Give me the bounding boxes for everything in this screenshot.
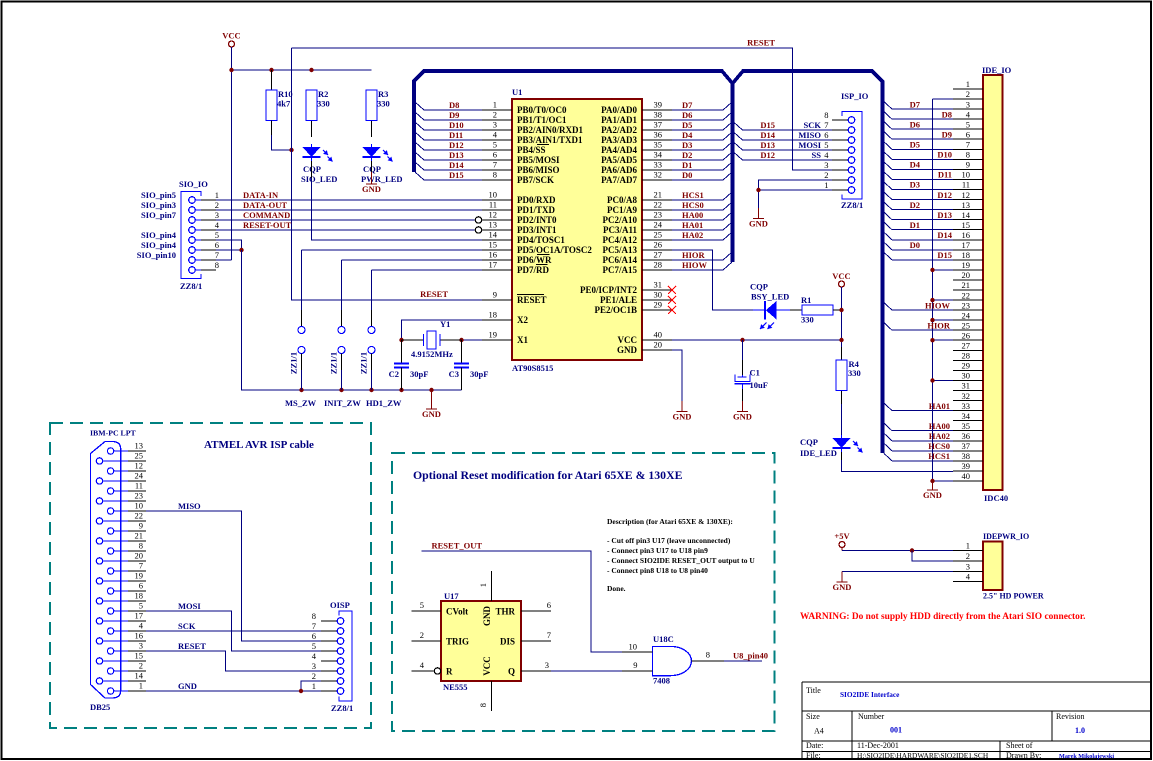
- wire INIT_ZW to U1: [342, 259, 483, 261]
- gate U18C 7408 AND: [622, 646, 724, 675]
- svg-text:1: 1: [493, 100, 497, 110]
- bus entries on right bus (IDE connector signals): [884, 102, 892, 461]
- svg-text:D5: D5: [910, 140, 920, 150]
- svg-text:Optional Reset modification fo: Optional Reset modification for Atari 65…: [413, 468, 683, 482]
- svg-text:D6: D6: [682, 110, 692, 120]
- wire RESET (DB25 pin3 to OISP pin3): [146, 651, 321, 671]
- svg-text:D0: D0: [682, 170, 692, 180]
- junction crystal left: [399, 338, 403, 342]
- svg-text:24: 24: [654, 220, 663, 230]
- data bus (thick navy): left bus, top run, mid bus, right bus: [414, 71, 883, 453]
- svg-text:U18C: U18C: [653, 634, 674, 644]
- svg-text:3: 3: [139, 641, 143, 651]
- svg-text:2: 2: [966, 551, 970, 561]
- svg-text:13: 13: [489, 220, 498, 230]
- svg-text:2.5" HD POWER: 2.5" HD POWER: [983, 592, 1044, 601]
- svg-text:PD3/INT1: PD3/INT1: [517, 225, 557, 235]
- resistor R3: [366, 90, 377, 137]
- svg-text:29: 29: [654, 300, 663, 310]
- svg-text:OISP: OISP: [330, 600, 350, 610]
- jumper ZZ1/1 MS_ZW: [298, 250, 305, 390]
- junction crystal right: [459, 338, 463, 342]
- svg-text:GND: GND: [178, 681, 197, 691]
- svg-text:SIO_pin4: SIO_pin4: [141, 230, 177, 240]
- labels SCK MISO MOSI SS at ISP: [798, 120, 821, 160]
- svg-text:330: 330: [801, 315, 814, 325]
- svg-text:PWR_LED: PWR_LED: [361, 174, 403, 184]
- svg-text:8: 8: [478, 703, 488, 707]
- wire IDE_LED to IDE pin 39: [842, 452, 954, 471]
- bus entries on mid bus right side (D15-D12 to ISP): [734, 122, 743, 160]
- labels D8-D15 at IDE: [937, 109, 952, 260]
- svg-text:D14: D14: [449, 160, 464, 170]
- svg-text:VCC: VCC: [618, 335, 638, 345]
- svg-text:30pF: 30pF: [470, 369, 488, 379]
- svg-text:3: 3: [215, 210, 219, 220]
- svg-text:SIO_pin5: SIO_pin5: [141, 190, 176, 200]
- resistor R10 (RESET pullup): [266, 70, 277, 135]
- svg-text:Done.: Done.: [607, 584, 626, 593]
- svg-text:6: 6: [547, 600, 551, 610]
- svg-text:9: 9: [966, 160, 970, 170]
- wire DATA-OUT (SIO pin2 to U1 pin11): [216, 209, 482, 211]
- svg-text:PD4/TOSC1: PD4/TOSC1: [517, 235, 565, 245]
- svg-text:9: 9: [139, 521, 143, 531]
- wire GND (DB25 pin1 to OISP pin1): [146, 690, 321, 692]
- wire SIO ground down to ground rail: [242, 250, 462, 390]
- junction SIO ground: [239, 248, 243, 252]
- svg-text:2: 2: [139, 661, 143, 671]
- svg-text:6: 6: [139, 581, 143, 591]
- svg-text:D12: D12: [937, 190, 952, 200]
- svg-text:Number: Number: [858, 712, 885, 721]
- svg-text:34: 34: [962, 411, 971, 421]
- wire U1 pin20 GND down: [672, 350, 682, 401]
- wire SIO pin7 to VCC: [216, 259, 232, 261]
- svg-text:D3: D3: [682, 140, 692, 150]
- wire X1 (U1 pin19 to crystal): [462, 339, 483, 341]
- svg-text:D0: D0: [910, 240, 920, 250]
- svg-text:D13: D13: [449, 150, 464, 160]
- svg-text:DATA-IN: DATA-IN: [243, 190, 279, 200]
- wire HD1_ZW to U1: [372, 269, 483, 271]
- svg-text:MISO: MISO: [178, 501, 201, 511]
- svg-text:PA0/AD0: PA0/AD0: [601, 105, 637, 115]
- jumper ZZ1/1 HD1_ZW: [368, 270, 375, 390]
- svg-text:SIO_LED: SIO_LED: [301, 174, 337, 184]
- svg-text:8: 8: [215, 260, 219, 270]
- svg-text:1: 1: [478, 583, 488, 587]
- svg-text:X1: X1: [517, 335, 528, 345]
- IDE data wires D8-D15 (even pins 4-18): [892, 119, 953, 260]
- DB25 pin numbers: [135, 441, 144, 691]
- svg-text:D9: D9: [449, 110, 459, 120]
- svg-text:31: 31: [654, 280, 663, 290]
- svg-text:9: 9: [493, 290, 497, 300]
- wire RESET_OUT to U18C pin 10: [422, 551, 623, 652]
- svg-text:8: 8: [966, 150, 970, 160]
- svg-text:PB0/T0/OC0: PB0/T0/OC0: [517, 105, 567, 115]
- svg-text:SCK: SCK: [178, 621, 196, 631]
- U1 right pin numbers: [654, 100, 663, 350]
- svg-text:35: 35: [654, 140, 663, 150]
- svg-text:3: 3: [966, 562, 970, 572]
- wire DATA-IN (SIO pin1 to U1 pin10): [216, 199, 482, 201]
- svg-text:D1: D1: [682, 160, 692, 170]
- svg-text:MS_ZW: MS_ZW: [285, 398, 317, 408]
- svg-text:8: 8: [493, 170, 497, 180]
- svg-text:7: 7: [493, 160, 497, 170]
- svg-text:HD1_ZW: HD1_ZW: [366, 398, 402, 408]
- svg-text:34: 34: [654, 150, 663, 160]
- svg-text:HIOR: HIOR: [682, 250, 706, 260]
- svg-text:38: 38: [962, 451, 971, 461]
- svg-text:8: 8: [139, 541, 143, 551]
- wire SIO pins 5+6 ground join: [216, 240, 242, 250]
- svg-text:PC2/A10: PC2/A10: [603, 215, 638, 225]
- bus entries on left bus (D8-D15 to U1 PB pins): [415, 102, 424, 180]
- svg-text:12: 12: [962, 190, 971, 200]
- pin numbers OISP 8-1: [312, 611, 317, 691]
- U1 right pin names: [580, 105, 638, 355]
- wire IDEPWR pin2: [912, 551, 953, 562]
- svg-text:27: 27: [654, 250, 663, 260]
- svg-text:330: 330: [317, 99, 330, 109]
- svg-text:14: 14: [962, 210, 971, 220]
- svg-text:PC7/A15: PC7/A15: [603, 265, 638, 275]
- svg-text:19: 19: [135, 571, 144, 581]
- U17 pin stubs and bubble: [412, 571, 552, 711]
- svg-text:8: 8: [312, 611, 316, 621]
- svg-text:HCS1: HCS1: [928, 451, 950, 461]
- svg-text:23: 23: [654, 210, 663, 220]
- svg-text:11: 11: [135, 481, 143, 491]
- svg-text:2: 2: [493, 110, 497, 120]
- svg-text:PB4/SS: PB4/SS: [517, 145, 546, 155]
- svg-text:HA00: HA00: [929, 421, 950, 431]
- U1 left pin names: [517, 105, 592, 345]
- svg-text:3: 3: [312, 661, 316, 671]
- svg-text:PD5/OC1A/TOSC2: PD5/OC1A/TOSC2: [517, 245, 592, 255]
- svg-text:22: 22: [654, 200, 663, 210]
- svg-text:VCC: VCC: [222, 31, 240, 41]
- svg-text:PA5/AD5: PA5/AD5: [601, 155, 637, 165]
- DB25 pin circles and stubs: [96, 448, 146, 694]
- svg-text:1: 1: [966, 541, 970, 551]
- LED BSY_LED (horizontal): [753, 301, 790, 329]
- svg-text:DB25: DB25: [90, 702, 110, 712]
- wire RESET-OUT (SIO pin4 to U1 pin13): [216, 229, 475, 231]
- IDEPWR pin stubs: [953, 551, 983, 582]
- svg-text:SIO_IO: SIO_IO: [179, 179, 208, 189]
- svg-text:R10: R10: [278, 89, 293, 99]
- resistor R1: [790, 305, 842, 315]
- svg-text:330: 330: [377, 99, 390, 109]
- svg-text:R2: R2: [318, 89, 328, 99]
- labels D7-D0 at IDE: [910, 99, 921, 250]
- svg-text:PC6/A14: PC6/A14: [603, 255, 638, 265]
- svg-text:- Cut off pin3 U17 (leave unco: - Cut off pin3 U17 (leave unconnected): [607, 536, 731, 545]
- wire R4 to IDE_LED: [841, 404, 843, 435]
- svg-text:HA02: HA02: [682, 230, 703, 240]
- svg-text:32: 32: [962, 391, 971, 401]
- svg-text:1: 1: [139, 681, 143, 691]
- svg-text:A4: A4: [814, 727, 824, 736]
- LED SIO_LED: [303, 144, 333, 162]
- svg-text:VCC: VCC: [482, 656, 492, 676]
- svg-text:D4: D4: [910, 160, 921, 170]
- svg-text:ZZ1/1: ZZ1/1: [359, 352, 369, 374]
- labels D8-D15 at U1 left: [449, 100, 464, 180]
- svg-text:21: 21: [654, 190, 663, 200]
- ic U1 AT90S8515 body: [512, 99, 642, 360]
- dashed frame Optional Reset modification: [392, 453, 775, 731]
- svg-text:PB3/AIN1/TXD1: PB3/AIN1/TXD1: [517, 135, 583, 145]
- svg-text:D8: D8: [942, 109, 952, 119]
- junction C1 top: [740, 338, 744, 342]
- resistor R2: [306, 90, 317, 137]
- svg-text:22: 22: [962, 290, 971, 300]
- svg-text:SIO2IDE Interface: SIO2IDE Interface: [840, 690, 900, 699]
- svg-text:U1: U1: [512, 87, 522, 97]
- pin numbers ISP_IO 8-1: [824, 110, 829, 190]
- svg-text:4k7: 4k7: [277, 99, 291, 109]
- svg-text:25: 25: [654, 230, 663, 240]
- svg-text:SIO_pin4: SIO_pin4: [141, 240, 177, 250]
- svg-text:ZZ8/1: ZZ8/1: [180, 281, 202, 291]
- junction R1/VCC: [839, 308, 843, 312]
- svg-text:6: 6: [215, 240, 219, 250]
- junction RESET/R10: [289, 148, 293, 152]
- svg-text:7: 7: [966, 140, 970, 150]
- svg-text:CVolt: CVolt: [446, 607, 468, 617]
- svg-text:16: 16: [135, 631, 144, 641]
- svg-text:17: 17: [489, 260, 498, 270]
- svg-text:PB2/AIN0/RXD1: PB2/AIN0/RXD1: [517, 125, 584, 135]
- svg-text:2: 2: [420, 630, 424, 640]
- svg-text:SIO_pin7: SIO_pin7: [141, 210, 177, 220]
- svg-text:D4: D4: [682, 130, 693, 140]
- svg-text:HCS0: HCS0: [682, 200, 704, 210]
- svg-text:10: 10: [489, 190, 498, 200]
- svg-text:7: 7: [312, 621, 316, 631]
- LED PWR_LED: [363, 144, 393, 162]
- connector OISP ZZ8/1: [321, 611, 352, 701]
- svg-text:GND: GND: [362, 184, 381, 194]
- capacitor C1 (polarized): [735, 340, 751, 401]
- svg-text:PB5/MOSI: PB5/MOSI: [517, 155, 560, 165]
- svg-text:40: 40: [654, 330, 663, 340]
- svg-text:IBM-PC LPT: IBM-PC LPT: [90, 429, 136, 438]
- svg-text:35: 35: [962, 421, 971, 431]
- connector IDE_IO IDC40 body: [983, 75, 1003, 490]
- svg-text:19: 19: [962, 260, 971, 270]
- svg-text:MOSI: MOSI: [178, 601, 201, 611]
- U1 inverting bubbles pins 12,13: [475, 217, 481, 223]
- wires PC port to mid bus: [672, 200, 723, 270]
- svg-text:COMMAND: COMMAND: [243, 210, 290, 220]
- svg-text:Revision: Revision: [1056, 712, 1084, 721]
- svg-text:IDC40: IDC40: [984, 493, 1008, 503]
- svg-text:GND: GND: [733, 412, 752, 422]
- svg-text:5: 5: [215, 230, 219, 240]
- svg-text:31: 31: [962, 381, 971, 391]
- title block texts: [806, 686, 1114, 760]
- svg-text:20: 20: [654, 340, 663, 350]
- junction cable ground: [299, 689, 303, 693]
- svg-text:ZZ8/1: ZZ8/1: [841, 200, 863, 210]
- svg-text:39: 39: [654, 100, 663, 110]
- svg-text:GND: GND: [617, 345, 638, 355]
- svg-text:C1: C1: [750, 368, 760, 378]
- svg-text:GND: GND: [749, 219, 768, 229]
- svg-text:D13: D13: [937, 210, 952, 220]
- svg-text:36: 36: [962, 431, 971, 441]
- wire U1 pin40 VCC: [672, 339, 842, 341]
- svg-text:D6: D6: [910, 119, 920, 129]
- svg-text:28: 28: [962, 351, 971, 361]
- junction VCC/pin40: [839, 338, 843, 342]
- IDE ground rail (pins 2,19,22,24,26,30,40): [933, 99, 954, 481]
- junction VCC rail: [229, 68, 233, 72]
- wire U1 pin26 (PC5) to BSY_LED: [672, 250, 753, 310]
- svg-text:D11: D11: [938, 170, 952, 180]
- svg-text:PA3/AD3: PA3/AD3: [601, 135, 637, 145]
- wire VCC rail horizontal: [232, 69, 372, 71]
- svg-text:IDEPWR_IO: IDEPWR_IO: [983, 532, 1029, 541]
- svg-text:D13: D13: [760, 140, 775, 150]
- svg-text:D10: D10: [937, 150, 952, 160]
- svg-text:WARNING: Do not supply HDD dir: WARNING: Do not supply HDD directly from…: [800, 612, 1086, 622]
- svg-text:- Connect SIO2IDE RESET_OUT ou: - Connect SIO2IDE RESET_OUT output to U: [607, 556, 755, 565]
- svg-text:D8: D8: [449, 100, 459, 110]
- U1 right pin stubs: [642, 110, 672, 350]
- svg-text:- Connect pin8 U18 to U8 pin40: - Connect pin8 U18 to U8 pin40: [607, 566, 708, 575]
- svg-text:7408: 7408: [653, 676, 670, 686]
- svg-text:1: 1: [966, 79, 970, 89]
- svg-text:D11: D11: [449, 130, 463, 140]
- svg-text:ZZ1/1: ZZ1/1: [289, 352, 299, 374]
- svg-text:18: 18: [489, 310, 498, 320]
- svg-text:1: 1: [312, 681, 316, 691]
- svg-text:C2: C2: [389, 369, 399, 379]
- svg-text:6: 6: [824, 130, 828, 140]
- svg-text:11-Dec-2001: 11-Dec-2001: [857, 741, 899, 750]
- title block frame: [802, 682, 1151, 759]
- svg-text:HA02: HA02: [929, 431, 950, 441]
- svg-text:D7: D7: [682, 100, 693, 110]
- svg-text:11: 11: [962, 180, 970, 190]
- wire +5V to IDEPWR pin1: [842, 548, 953, 551]
- wire U17 Q to U18C pin 9: [551, 670, 622, 672]
- svg-text:PC1/A9: PC1/A9: [607, 205, 637, 215]
- svg-text:23: 23: [135, 491, 144, 501]
- svg-text:32: 32: [654, 170, 663, 180]
- svg-text:D15: D15: [937, 250, 952, 260]
- wire U18C output: [724, 660, 762, 662]
- ground at IDEPWR: [833, 572, 852, 593]
- connector SIO_IO ZZ8/1: [181, 192, 216, 279]
- svg-text:R1: R1: [801, 295, 811, 305]
- svg-text:D2: D2: [910, 200, 920, 210]
- svg-text:AT90S8515: AT90S8515: [512, 363, 553, 373]
- svg-text:R3: R3: [378, 89, 388, 99]
- svg-text:12: 12: [489, 210, 498, 220]
- wire RESET net: from R10 junction up across sheet to ISP pin3: [292, 48, 833, 170]
- ground under ISP: [749, 208, 768, 229]
- svg-text:DIS: DIS: [500, 637, 515, 647]
- U18C pin numbers: [629, 642, 711, 671]
- svg-text:13: 13: [135, 441, 144, 451]
- svg-text:3: 3: [824, 160, 828, 170]
- svg-text:+5V: +5V: [834, 531, 850, 541]
- wires PA0-PA7 to mid bus: [672, 110, 723, 180]
- svg-text:BSY_LED: BSY_LED: [751, 292, 789, 302]
- svg-text:37: 37: [962, 441, 971, 451]
- overlines for PB4/SS, PD6/WR, PD7/RD, RESET: [517, 145, 550, 295]
- wire COMMAND (SIO pin3 to U1 pin12): [216, 219, 475, 221]
- ground under IDE pin 40: [923, 481, 942, 500]
- svg-text:40: 40: [962, 471, 971, 481]
- svg-text:3: 3: [966, 99, 970, 109]
- wires D8-D15 from left bus to U1: [424, 110, 482, 180]
- svg-text:PC4/A12: PC4/A12: [603, 235, 638, 245]
- svg-text:PD7/RD: PD7/RD: [517, 265, 549, 275]
- svg-text:Marek Mikolajewski: Marek Mikolajewski: [1059, 753, 1114, 760]
- svg-text:Description (for Atari 65XE &: Description (for Atari 65XE & 130XE):: [607, 517, 733, 526]
- U1 left pin stubs: [482, 110, 512, 340]
- svg-text:PE0/ICP/INT2: PE0/ICP/INT2: [580, 285, 638, 295]
- svg-text:001: 001: [890, 726, 902, 735]
- svg-text:10uF: 10uF: [750, 380, 768, 390]
- svg-text:2: 2: [215, 200, 219, 210]
- svg-text:SIO_pin10: SIO_pin10: [137, 250, 176, 260]
- svg-text:PD6/WR: PD6/WR: [517, 255, 552, 265]
- svg-text:RESET: RESET: [178, 641, 206, 651]
- svg-text:25: 25: [962, 320, 971, 330]
- svg-text:ZZ1/1: ZZ1/1: [329, 352, 339, 374]
- svg-text:36: 36: [654, 130, 663, 140]
- svg-text:1: 1: [215, 190, 219, 200]
- svg-text:12: 12: [135, 461, 144, 471]
- svg-text:10: 10: [629, 642, 638, 652]
- svg-text:30pF: 30pF: [410, 369, 428, 379]
- svg-text:3: 3: [545, 660, 549, 670]
- wires D15-D12 from mid bus to ISP: [743, 130, 833, 160]
- svg-text:Size: Size: [806, 712, 820, 721]
- svg-text:15: 15: [135, 651, 144, 661]
- svg-text:21: 21: [135, 531, 144, 541]
- svg-text:22: 22: [135, 511, 144, 521]
- svg-text:7: 7: [547, 630, 551, 640]
- svg-text:37: 37: [654, 120, 663, 130]
- labels D15-D12 at ISP: [760, 120, 775, 160]
- svg-text:X2: X2: [517, 315, 528, 325]
- svg-text:21: 21: [962, 280, 971, 290]
- svg-text:13: 13: [962, 200, 971, 210]
- IDE data wires D7-D0 (odd pins 3-17): [892, 109, 953, 250]
- wire X2 (U1 pin18 to crystal): [402, 320, 483, 340]
- svg-text:16: 16: [489, 250, 498, 260]
- svg-text:DATA-OUT: DATA-OUT: [243, 200, 287, 210]
- IDE pin numbers 1-40: [962, 79, 971, 481]
- resistor R4: [836, 347, 847, 404]
- U17 pin names: [446, 606, 515, 677]
- connector DB25 shell: [91, 442, 121, 699]
- svg-text:Date:: Date:: [806, 741, 823, 750]
- svg-text:VCC: VCC: [832, 271, 850, 281]
- svg-text:15: 15: [489, 240, 498, 250]
